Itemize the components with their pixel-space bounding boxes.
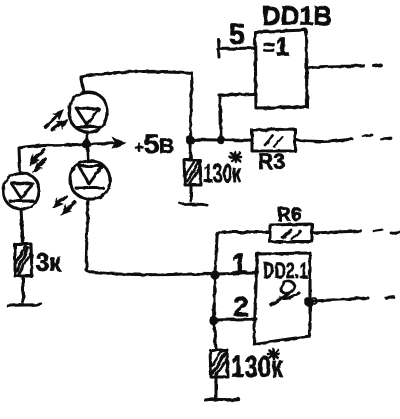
node: DD2 output junction with contact circle (304, 297, 314, 307)
svg-text:DD2.1: DD2.1 (263, 258, 308, 283)
wire: left photodiode top up and right to +5V node (19, 144, 84, 173)
wire: top horizontal from above top photodiode to vertical drop (81, 71, 192, 138)
resistor 3к (vertical, hatched) (15, 244, 32, 276)
ground (bottom) (205, 399, 239, 400)
wire: 130k upper to ground (190, 186, 193, 201)
LED VD middle: diode triangle and bar (79, 166, 102, 184)
resistor 130к upper (vertical, hatched) (184, 160, 201, 185)
wire: DD1 input pin 5 (218, 48, 254, 49)
wire: DD1 output (307, 66, 364, 68)
wire: DD2 input 2 node down to 130k lower (214, 322, 216, 349)
resistor R3 (horizontal) (252, 129, 295, 151)
svg-text:=1: =1 (263, 33, 289, 61)
LED VD middle: circle (70, 161, 110, 199)
node: DD2 input 2 junction (209, 316, 218, 325)
wire: LED bottom down then right to DD2 input 1 node (86, 199, 215, 275)
node: junction at DD1 pin2 drop (217, 136, 225, 144)
svg-text:+5В: +5В (134, 129, 174, 159)
resistor 130к lower (vertical, hatched) (210, 350, 228, 377)
photodiode VD left: circle (3, 173, 39, 209)
wire: main +5V rail to R3 (190, 138, 252, 142)
wire: between DD2 input nodes (214, 275, 215, 320)
photodiode VD left: diode triangle and bar (11, 183, 33, 198)
svg-text:1: 1 (231, 248, 248, 281)
XOR gate DD1.B: box (255, 30, 307, 108)
wire: DD2 node up and right to R6 (215, 232, 269, 273)
wire: junction to 130k upper (190, 144, 191, 159)
gate symbol squiggle inside DD2 (271, 281, 299, 305)
node: junction at 130k upper (185, 135, 194, 144)
svg-text:DD1В: DD1В (262, 1, 332, 31)
wire: DD2 output (313, 298, 368, 301)
wire: DD1 input 2 from +5V rail (219, 94, 254, 137)
ground (left) (8, 304, 41, 306)
wire: 130k lower to ground (215, 378, 218, 397)
svg-text:R3: R3 (258, 149, 285, 174)
+5V label arrow (91, 143, 120, 144)
wire: R6 output right (312, 231, 361, 233)
node: DD2 input 1 junction (210, 270, 219, 279)
asterisk mark (268, 349, 279, 359)
gate DD2.1: box (254, 253, 310, 344)
photodiode VD top: diode triangle and bar (76, 108, 99, 125)
resistor R6 (horizontal) (270, 224, 312, 242)
svg-text:3к: 3к (36, 249, 61, 277)
light arrows out of LED (58, 196, 66, 203)
node: +5V junction (81, 139, 90, 148)
light arrows into top photodiode (45, 113, 60, 127)
ground (middle) (180, 203, 207, 205)
wire: left photodiode to 3k resistor (21, 209, 23, 243)
svg-text:5: 5 (229, 19, 245, 51)
svg-text:R6: R6 (277, 205, 302, 226)
light arrows into left photodiode (34, 150, 44, 160)
asterisk mark (230, 152, 241, 162)
wire: 3k to ground (22, 277, 25, 302)
svg-text:2: 2 (233, 291, 249, 322)
wire: R3 output right (295, 139, 352, 142)
wire: DD2 input 1 (215, 273, 256, 274)
wire: vertical through +5V node between photodiode and LED (87, 132, 88, 161)
photodiode VD top: circle (69, 92, 107, 132)
wire: DD2 input 2 (214, 319, 256, 320)
